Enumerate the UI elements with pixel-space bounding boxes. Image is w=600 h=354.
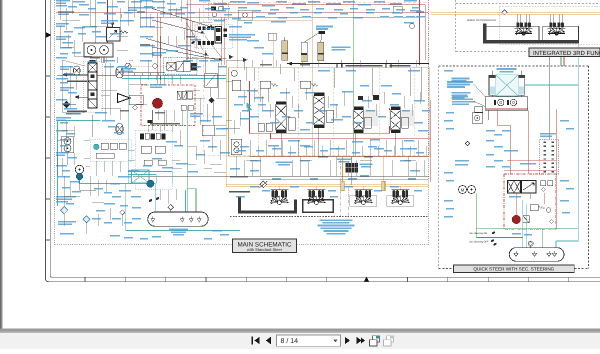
wire bbox=[133, 176, 429, 178]
strainer S7 bbox=[547, 251, 551, 256]
wire bbox=[415, 162, 417, 176]
node label bbox=[216, 128, 228, 130]
svg-text:QUICK STEER WITH SEC. STEERING: QUICK STEER WITH SEC. STEERING bbox=[473, 267, 554, 272]
wire bbox=[260, 179, 429, 181]
node label bbox=[346, 70, 356, 72]
breather filter F3 bbox=[168, 204, 174, 210]
node label bbox=[200, 120, 211, 122]
wire bbox=[548, 56, 550, 66]
node label bbox=[244, 22, 252, 24]
filter F5 bbox=[61, 207, 68, 214]
wire bbox=[91, 115, 93, 137]
node label bbox=[452, 96, 475, 105]
output shown note a bbox=[67, 81, 87, 83]
node label bbox=[218, 66, 227, 68]
node label bbox=[348, 178, 357, 180]
node label bbox=[56, 130, 68, 132]
wire bbox=[496, 110, 498, 125]
node label bbox=[394, 16, 403, 18]
wire bbox=[126, 230, 240, 232]
wire bbox=[285, 88, 287, 100]
main schematic title box bbox=[233, 239, 297, 253]
node label bbox=[79, 4, 89, 6]
wire bbox=[315, 186, 317, 190]
node label bbox=[446, 128, 454, 130]
node label bbox=[254, 47, 264, 49]
node label bbox=[320, 150, 328, 152]
wire bbox=[163, 16, 181, 18]
node label bbox=[229, 34, 255, 41]
wire bbox=[371, 68, 373, 96]
wire bbox=[155, 175, 157, 184]
brake valve spools bbox=[177, 91, 192, 99]
node label bbox=[72, 52, 81, 54]
check valve CV2 bbox=[258, 123, 264, 131]
strainer S2 bbox=[180, 217, 184, 222]
node label bbox=[250, 116, 259, 118]
wire bbox=[199, 98, 201, 125]
wire bbox=[251, 162, 253, 176]
wire bbox=[71, 0, 73, 14]
wire bbox=[62, 111, 85, 113]
wire bbox=[62, 19, 80, 21]
wire bbox=[347, 162, 349, 176]
wire bbox=[251, 60, 253, 67]
node label bbox=[258, 104, 266, 106]
node label bbox=[108, 6, 118, 8]
fan mount plate 3 bbox=[350, 196, 377, 206]
relay circle bbox=[243, 13, 248, 18]
node label bbox=[190, 113, 203, 117]
node label bbox=[360, 175, 369, 177]
pilot section V4a bbox=[402, 117, 409, 128]
wire bbox=[58, 120, 101, 122]
node label bbox=[408, 178, 416, 180]
wire bbox=[172, 159, 180, 161]
inline valve X bbox=[167, 62, 176, 70]
wire bbox=[391, 160, 393, 176]
wire bbox=[281, 140, 283, 156]
node label bbox=[262, 190, 270, 192]
node label bbox=[60, 66, 73, 70]
wire bbox=[249, 81, 251, 133]
strainer S6 bbox=[533, 251, 537, 256]
wire bbox=[431, 12, 502, 14]
wire bbox=[169, 0, 171, 17]
manifold module MM1 bbox=[90, 139, 131, 161]
wire bbox=[279, 64, 281, 74]
wire bbox=[382, 156, 384, 184]
wire bbox=[329, 160, 331, 176]
node label bbox=[332, 46, 351, 50]
node label bbox=[56, 117, 71, 121]
svg-text:M: M bbox=[461, 187, 465, 192]
wire bbox=[197, 22, 199, 48]
wire bbox=[211, 136, 213, 152]
wire bbox=[79, 180, 81, 190]
node label bbox=[60, 145, 68, 147]
node label bbox=[212, 230, 222, 232]
node label bbox=[292, 3, 306, 5]
node label bbox=[94, 188, 103, 190]
port label bbox=[300, 64, 310, 66]
filter F2 bbox=[260, 181, 267, 188]
wire bbox=[317, 60, 319, 67]
wire bbox=[74, 55, 92, 57]
node label bbox=[270, 122, 279, 124]
wire bbox=[173, 110, 175, 122]
accumulator A1 bbox=[282, 37, 288, 60]
relief valve RV1 bbox=[260, 81, 270, 88]
node label bbox=[282, 116, 290, 118]
node label bbox=[343, 1, 355, 3]
LS teal bus 2 bbox=[122, 78, 226, 80]
wire bbox=[151, 110, 153, 126]
filter F6 bbox=[83, 216, 90, 223]
node label bbox=[68, 92, 77, 94]
node label bbox=[95, 112, 107, 114]
node label bbox=[374, 148, 384, 150]
wire bbox=[188, 145, 196, 147]
node label bbox=[102, 120, 115, 122]
wire bbox=[556, 240, 578, 242]
node label bbox=[212, 116, 222, 118]
fan row datum dashes bbox=[230, 216, 429, 218]
node label bbox=[560, 200, 569, 202]
node label bbox=[560, 180, 569, 182]
wire bbox=[226, 59, 240, 61]
wire bbox=[59, 0, 61, 20]
wire bbox=[407, 156, 409, 176]
node label bbox=[486, 130, 495, 132]
node label bbox=[336, 148, 345, 150]
accumulator A2 bbox=[301, 33, 319, 62]
wire bbox=[259, 156, 261, 176]
node label bbox=[169, 229, 188, 236]
wire bbox=[90, 25, 112, 27]
wire bbox=[204, 50, 206, 73]
wire bbox=[89, 0, 91, 26]
brake valve module bbox=[141, 85, 195, 126]
node label bbox=[444, 120, 453, 122]
node label bbox=[56, 196, 76, 203]
wire bbox=[515, 193, 517, 215]
node label bbox=[410, 170, 420, 172]
compensator C1 bbox=[232, 80, 240, 90]
strainer S4 bbox=[197, 217, 201, 222]
node label bbox=[236, 150, 246, 152]
node label bbox=[247, 2, 259, 4]
wire bbox=[171, 76, 173, 84]
wire bbox=[219, 140, 221, 160]
wire bbox=[321, 146, 323, 156]
wire bbox=[73, 40, 75, 56]
wire bbox=[300, 159, 312, 161]
node label bbox=[242, 110, 250, 112]
steer cylinder CR bbox=[518, 71, 525, 96]
wire bbox=[159, 190, 161, 200]
wire bbox=[62, 129, 74, 131]
node label bbox=[486, 154, 494, 156]
port label bbox=[186, 36, 195, 38]
node label bbox=[92, 31, 101, 33]
port label bbox=[364, 156, 373, 158]
shuttle valve bbox=[181, 105, 186, 110]
wire bbox=[80, 189, 97, 191]
node label bbox=[362, 100, 372, 102]
node label bbox=[62, 103, 70, 105]
node label bbox=[140, 45, 155, 47]
node label bbox=[455, 160, 469, 162]
nav next page button bbox=[345, 337, 350, 345]
wire bbox=[245, 67, 247, 81]
node label bbox=[447, 81, 473, 88]
node label bbox=[494, 146, 503, 148]
wire bbox=[101, 107, 120, 109]
wire bbox=[311, 0, 313, 156]
node label bbox=[72, 113, 81, 115]
node label bbox=[330, 196, 338, 198]
wire bbox=[157, 13, 159, 84]
wire bbox=[125, 184, 127, 231]
drain plugs bbox=[148, 197, 159, 203]
sheet frame inner bbox=[50, 0, 600, 277]
section shading bbox=[352, 110, 378, 126]
wire bbox=[145, 0, 147, 27]
node label bbox=[56, 57, 67, 59]
node label bbox=[486, 140, 494, 142]
node label bbox=[79, 14, 89, 16]
node label bbox=[152, 158, 162, 160]
wire bbox=[313, 140, 315, 156]
wire bbox=[577, 85, 579, 241]
node label bbox=[117, 1, 125, 3]
wire bbox=[179, 130, 181, 146]
port block bbox=[475, 107, 483, 112]
node label bbox=[451, 92, 470, 99]
node label bbox=[300, 129, 310, 131]
accumulator manifold bbox=[319, 31, 326, 34]
wire bbox=[293, 68, 295, 81]
port label bbox=[260, 64, 272, 66]
wire bbox=[335, 104, 337, 118]
wire bbox=[385, 140, 387, 156]
wire bbox=[163, 110, 165, 130]
wire bbox=[62, 46, 74, 48]
wire bbox=[236, 20, 238, 68]
wire bbox=[404, 159, 416, 161]
3rd function panel border bbox=[456, 0, 600, 52]
node label bbox=[120, 20, 134, 22]
wire bbox=[401, 140, 403, 156]
gear pump pair bbox=[61, 137, 73, 153]
node label bbox=[60, 233, 74, 235]
node label bbox=[444, 200, 453, 202]
wire bbox=[117, 35, 128, 37]
wire bbox=[214, 171, 226, 173]
node label bbox=[118, 176, 131, 178]
wire bbox=[369, 140, 371, 156]
node label bbox=[192, 66, 201, 68]
node label bbox=[290, 186, 299, 188]
wire bbox=[84, 139, 90, 141]
node label bbox=[190, 39, 201, 41]
wire bbox=[147, 60, 149, 80]
wire bbox=[243, 60, 245, 70]
node label bbox=[124, 12, 133, 14]
node label bbox=[167, 3, 176, 5]
wire bbox=[119, 161, 121, 172]
wire bbox=[101, 94, 110, 96]
node label bbox=[247, 90, 258, 92]
node label bbox=[408, 70, 420, 72]
port label bbox=[120, 110, 129, 112]
dark cartridge bbox=[191, 63, 197, 71]
node label bbox=[392, 93, 401, 95]
quick steer title box bbox=[454, 265, 575, 273]
3rd function title box bbox=[529, 48, 600, 57]
wire bbox=[272, 33, 274, 68]
node label bbox=[540, 133, 556, 137]
node label bbox=[188, 171, 198, 173]
wire bbox=[186, 106, 188, 212]
node label bbox=[502, 166, 510, 168]
wire bbox=[289, 146, 291, 156]
section dash-dot a bbox=[340, 160, 342, 217]
wire bbox=[226, 184, 428, 186]
svg-text:WIRED TO CONTROLLER: WIRED TO CONTROLLER bbox=[467, 19, 496, 22]
wire bbox=[301, 60, 303, 67]
node label bbox=[234, 104, 243, 106]
wire bbox=[270, 133, 272, 139]
dark diamond marker bbox=[63, 101, 77, 108]
node label bbox=[150, 84, 166, 88]
node label bbox=[60, 139, 70, 141]
wire bbox=[225, 60, 227, 186]
charge pump P3 bbox=[75, 165, 83, 173]
wire bbox=[129, 59, 133, 61]
wire bbox=[529, 193, 531, 199]
check valve ball bbox=[208, 97, 214, 103]
3rd function fan MA bbox=[515, 22, 533, 35]
node label bbox=[58, 176, 70, 178]
wire bbox=[299, 156, 301, 176]
node label bbox=[446, 112, 454, 114]
pressure switch B3 bbox=[147, 180, 154, 187]
wire bbox=[62, 60, 85, 66]
wire bbox=[563, 56, 565, 66]
stack valve frame bbox=[83, 61, 102, 113]
filter F9 bbox=[465, 141, 470, 146]
valve Y1 bbox=[205, 73, 217, 88]
solenoid array bbox=[140, 133, 166, 139]
node label bbox=[210, 60, 220, 62]
node label bbox=[256, 150, 264, 152]
frame ticks bbox=[45, 76, 568, 282]
pump P1 bbox=[87, 46, 96, 55]
wire bbox=[63, 214, 65, 226]
node label bbox=[272, 178, 281, 180]
wire bbox=[149, 14, 151, 27]
node label bbox=[268, 13, 276, 15]
wire bbox=[239, 112, 241, 126]
wire bbox=[165, 110, 167, 126]
wire bbox=[78, 177, 80, 184]
wire bbox=[105, 57, 107, 63]
port label bbox=[230, 176, 248, 178]
relief valve RV2 bbox=[300, 81, 310, 88]
node label bbox=[294, 110, 303, 112]
node label bbox=[238, 96, 247, 98]
node label bbox=[422, 110, 430, 112]
node label bbox=[300, 9, 309, 11]
reservoir tank T2 bbox=[509, 248, 564, 262]
node label bbox=[416, 11, 424, 13]
wire bbox=[140, 16, 420, 18]
steering linkage crossbox bbox=[496, 75, 519, 96]
node label bbox=[140, 7, 155, 9]
wire bbox=[204, 167, 212, 169]
wire bbox=[543, 193, 545, 204]
wire bbox=[170, 210, 172, 212]
node label bbox=[566, 128, 574, 130]
spring RV1 bbox=[271, 83, 279, 86]
wire bbox=[73, 153, 75, 165]
node label bbox=[300, 160, 310, 162]
wire bbox=[497, 124, 510, 126]
node label bbox=[137, 11, 145, 13]
orifice plate bbox=[188, 105, 193, 110]
node label bbox=[250, 160, 261, 162]
wire bbox=[335, 156, 337, 176]
wire bbox=[269, 104, 271, 118]
node label bbox=[174, 145, 183, 147]
node label bbox=[104, 203, 115, 205]
filter arrow bbox=[259, 181, 267, 188]
wire bbox=[419, 92, 421, 104]
node label bbox=[118, 66, 129, 68]
wire bbox=[101, 89, 117, 91]
wire bbox=[65, 120, 67, 152]
node label bbox=[97, 2, 106, 4]
breather check B4 bbox=[528, 241, 533, 248]
node label bbox=[253, 10, 261, 12]
leader lines bbox=[474, 84, 487, 107]
node label bbox=[238, 7, 247, 9]
wire bbox=[59, 26, 61, 47]
wire bbox=[199, 21, 212, 23]
wire bbox=[171, 76, 173, 80]
valve spool V4 bbox=[391, 107, 401, 133]
node label bbox=[110, 183, 120, 185]
wire bbox=[136, 103, 147, 105]
valve W4 bbox=[158, 160, 166, 165]
wire bbox=[109, 63, 111, 115]
node label bbox=[308, 1, 320, 3]
node label bbox=[280, 92, 290, 94]
node label bbox=[222, 8, 230, 10]
inline pump symbol bbox=[125, 63, 131, 69]
next view icon (disabled) bbox=[384, 336, 394, 346]
steer cylinder CL bbox=[489, 71, 496, 96]
node label bbox=[176, 163, 188, 165]
wire bbox=[424, 5, 426, 61]
prev view icon bbox=[370, 336, 380, 346]
node label bbox=[230, 1, 245, 3]
node label bbox=[140, 0, 153, 2]
LS teal bus bbox=[58, 75, 227, 77]
port label bbox=[140, 44, 150, 46]
